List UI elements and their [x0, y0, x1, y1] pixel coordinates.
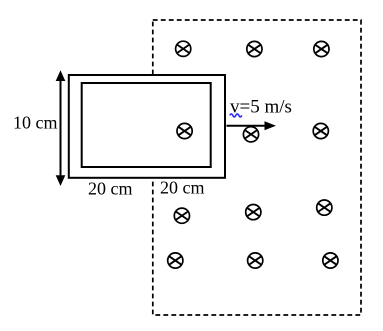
- flux symbol row3 col1: [174, 208, 189, 223]
- flux symbol row1 col1: [176, 41, 191, 56]
- flux symbol row3 col2: [246, 205, 261, 220]
- flux symbol row4 col2: [248, 253, 263, 268]
- svg-text:20 cm: 20 cm: [88, 179, 133, 199]
- flux symbol row1 col3: [314, 41, 329, 56]
- velocity arrow: [227, 121, 277, 130]
- svg-text:v=5 m/s: v=5 m/s: [230, 97, 292, 118]
- svg-text:10 cm: 10 cm: [13, 113, 58, 133]
- flux symbol row2 col1 (inside loop): [177, 123, 192, 138]
- loop outer rectangle: [69, 75, 225, 178]
- loop inner rectangle: [82, 83, 211, 167]
- flux symbol row2 col2 (under velocity arrow): [243, 127, 258, 142]
- flux symbol row4 col1: [168, 253, 183, 268]
- dashed field region boundary: [153, 20, 361, 315]
- height dimension arrow (double-headed): [56, 70, 66, 186]
- flux symbol row2 col3: [313, 123, 328, 138]
- spellcheck squiggle under v: [230, 114, 242, 117]
- flux symbol row4 col3: [323, 253, 338, 268]
- flux symbol row1 col2: [247, 41, 262, 56]
- flux symbol row3 col3: [317, 200, 332, 215]
- svg-text:20 cm: 20 cm: [160, 178, 205, 198]
